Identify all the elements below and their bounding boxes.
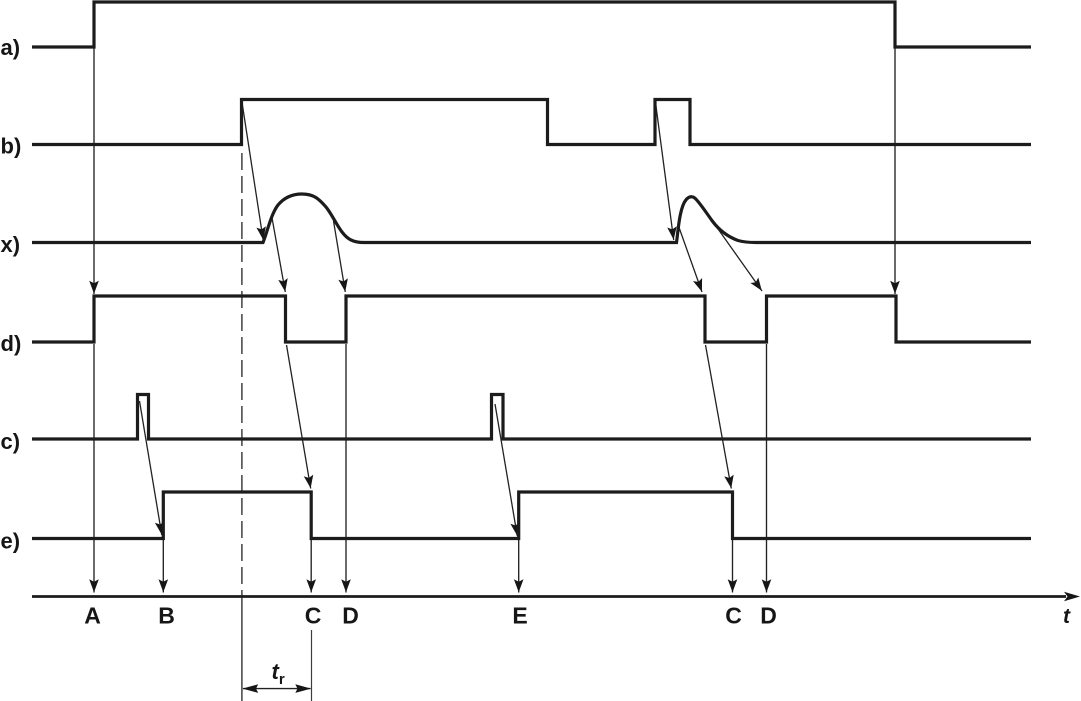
svg-text:A: A — [84, 603, 101, 629]
time axis — [32, 595, 1066, 598]
arrow x first pulse to d rising right — [334, 221, 346, 292]
dimension line tr — [243, 688, 311, 690]
svg-text:D: D — [760, 603, 777, 629]
svg-text:tr: tr — [272, 659, 285, 688]
svg-text:a): a) — [1, 35, 21, 60]
svg-text:c): c) — [1, 429, 21, 454]
arrow event C second from e to axis — [732, 540, 734, 593]
svg-text:D: D — [342, 603, 359, 629]
arrow event B from e to axis — [162, 540, 164, 593]
arrow c second pulse to e rising — [495, 404, 517, 536]
svg-text:b): b) — [1, 134, 22, 159]
arrow b second pulse to x second pulse — [655, 101, 673, 240]
dimension extension line at C — [311, 630, 313, 701]
svg-text:B: B — [158, 603, 175, 629]
arrow x second pulse to d rising right — [717, 228, 762, 292]
svg-text:x): x) — [1, 232, 21, 257]
arrow event A to axis (lower) — [93, 344, 95, 593]
arrow event C first from e to axis — [310, 540, 312, 593]
dimension tr left arrowhead — [242, 684, 258, 693]
waveform a — [32, 2, 1031, 47]
arrow a falling edge to d — [894, 48, 896, 294]
arrow event D second from d to axis — [766, 344, 768, 593]
waveform e — [32, 492, 1031, 539]
arrow c first pulse to e rising — [140, 401, 162, 535]
arrow event E from e to axis — [518, 540, 520, 593]
svg-text:C: C — [305, 603, 322, 629]
arrow d falling to e falling second — [706, 345, 732, 489]
dimension tr right arrowhead — [295, 684, 311, 693]
time axis arrowhead — [1064, 592, 1080, 601]
waveform d — [32, 296, 1031, 342]
waveform b — [32, 100, 1031, 145]
guide line extension below axis — [241, 595, 243, 701]
dashed guide line at b rising edge — [241, 153, 243, 595]
arrow event A from a to axis (upper) — [93, 48, 95, 294]
arrow event D first from d to axis — [345, 344, 347, 593]
svg-text:e): e) — [1, 529, 21, 554]
arrow d falling to e falling first — [287, 345, 311, 489]
svg-text:d): d) — [1, 331, 22, 356]
arrow x first pulse to d falling left — [272, 215, 286, 292]
svg-text:t: t — [1063, 605, 1071, 628]
arrow x second pulse to d falling left — [679, 226, 703, 292]
waveform x — [32, 194, 1031, 243]
arrow b rising to x first pulse — [242, 101, 263, 240]
svg-text:C: C — [725, 603, 742, 629]
svg-text:E: E — [512, 603, 527, 629]
waveform c — [32, 395, 1031, 440]
